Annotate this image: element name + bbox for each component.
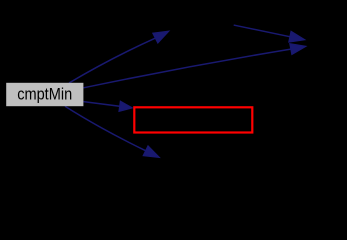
node cmptMin (current node, grey box) — [6, 83, 83, 106]
wire: edge cmptMin to red truncated node — [84, 101, 133, 111]
wire: edge cmptMin to bottom node — [65, 106, 160, 157]
wire: edge cmptMin to top node — [69, 31, 169, 83]
wire: edge top node to right node — [234, 25, 305, 42]
svg-text:cmptMin: cmptMin — [17, 85, 72, 103]
wire: edge cmptMin to right node — [84, 44, 307, 88]
node truncated callee (red box) — [134, 107, 252, 132]
